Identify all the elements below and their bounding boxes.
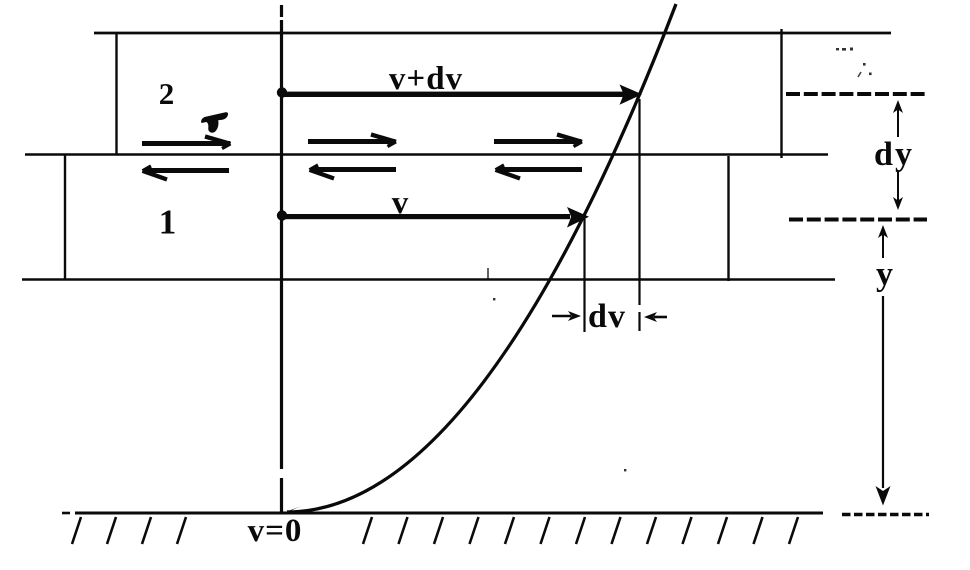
svg-text:dy: dy [874,136,914,173]
svg-text:2: 2 [159,76,175,111]
svg-text:y: y [876,256,893,293]
svg-text:dv: dv [588,298,626,335]
svg-text:v+dv: v+dv [389,61,463,97]
svg-text:v=0: v=0 [248,513,303,549]
svg-text:v: v [392,185,409,221]
svg-text:1: 1 [159,203,177,242]
